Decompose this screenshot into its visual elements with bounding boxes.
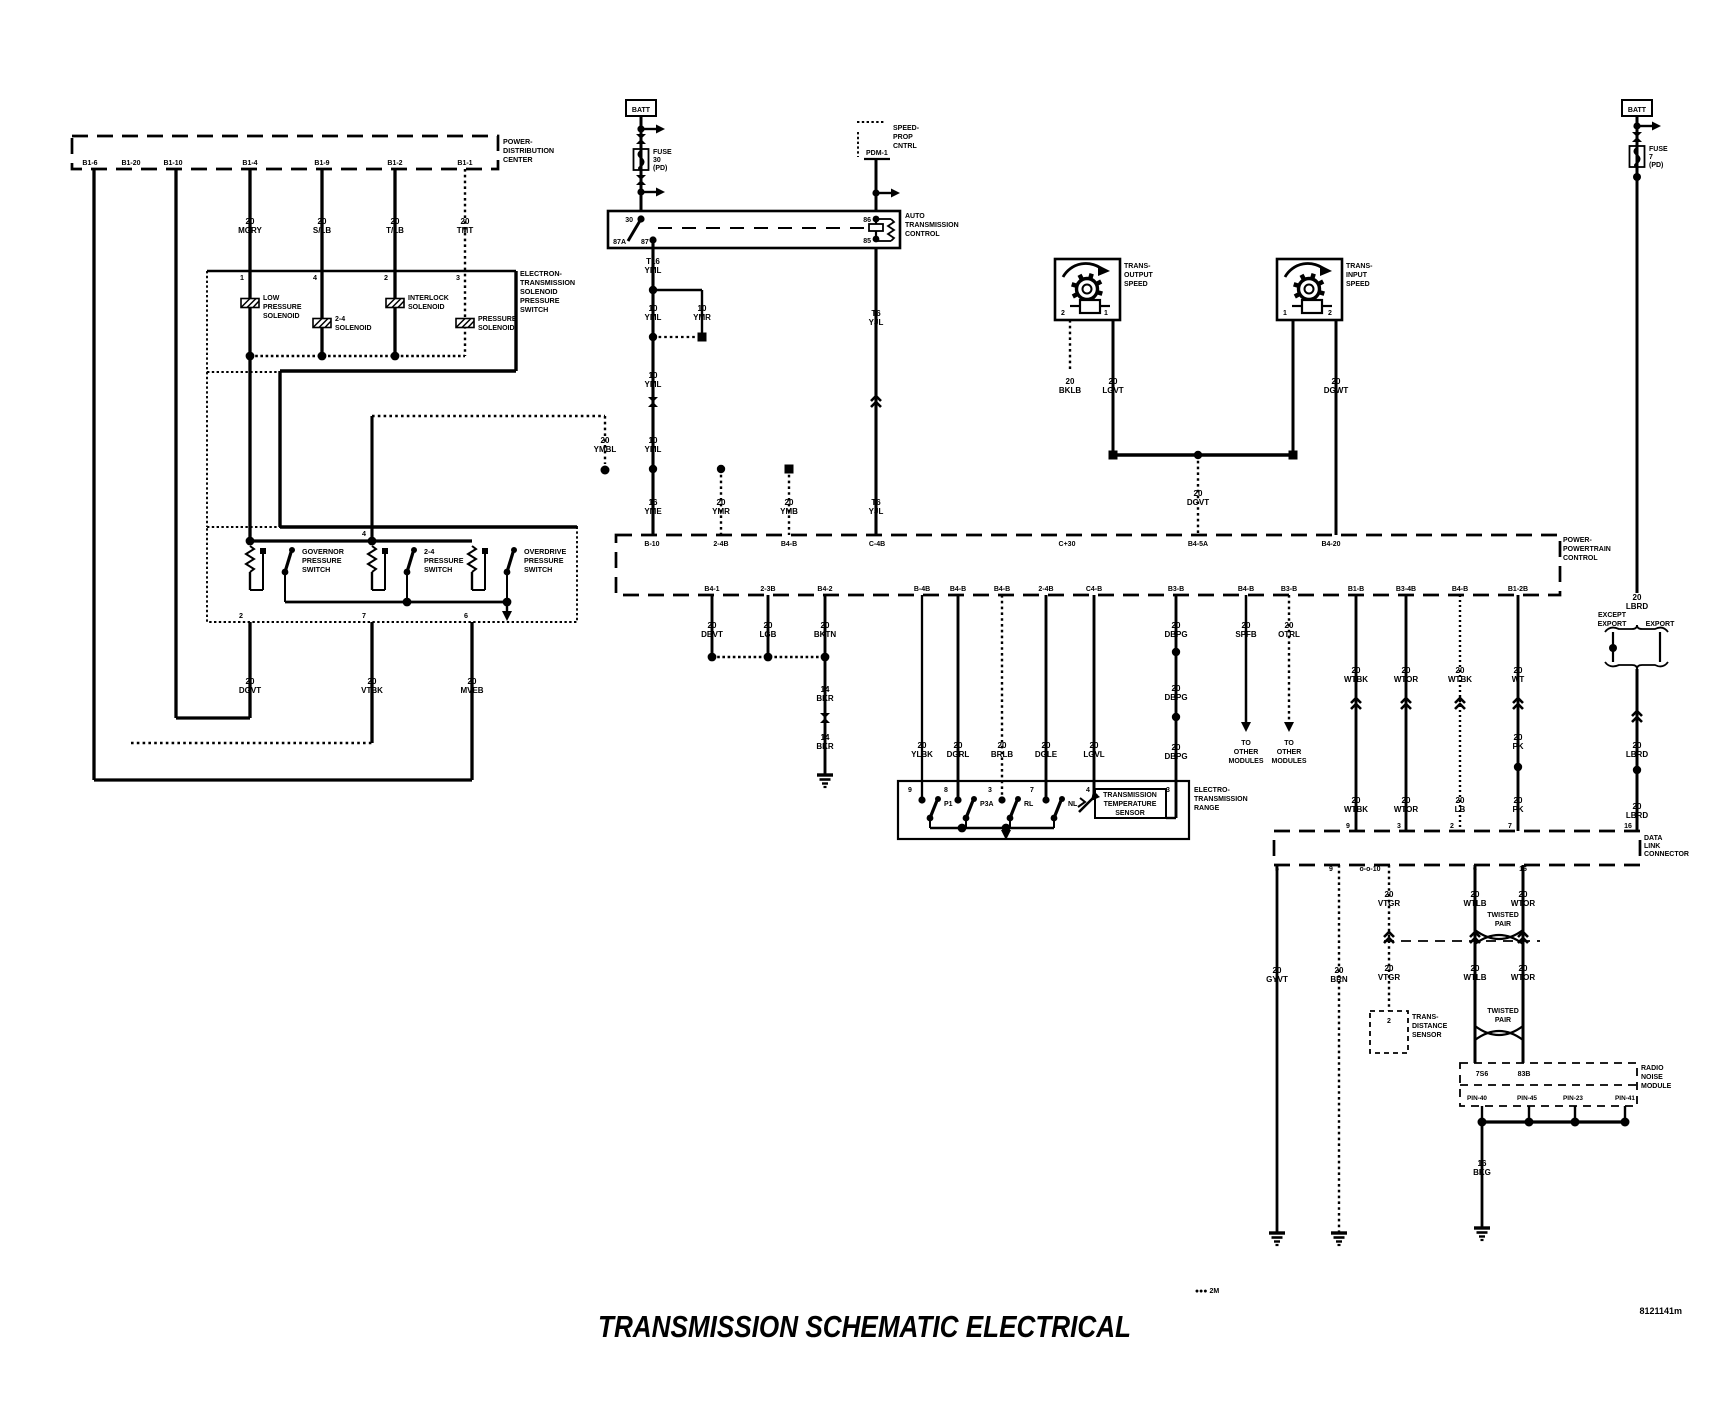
svg-text:T16: T16: [646, 257, 660, 266]
svg-text:RL: RL: [1024, 801, 1034, 808]
svg-text:TRANSMISSION SCHEMATIC ELECTRI: TRANSMISSION SCHEMATIC ELECTRICAL: [598, 1309, 1131, 1344]
svg-text:4: 4: [1086, 787, 1090, 794]
svg-text:16: 16: [1478, 1159, 1487, 1168]
svg-text:LINK: LINK: [1644, 843, 1660, 850]
ground group wires: [711, 595, 714, 657]
range sensor wires: [921, 595, 923, 800]
svg-text:T6: T6: [871, 309, 881, 318]
svg-text:20: 20: [1352, 666, 1361, 675]
low pressure solenoid: [241, 299, 259, 308]
svg-text:B1-B: B1-B: [1348, 586, 1364, 593]
svg-text:2: 2: [1328, 310, 1332, 317]
svg-text:OTHER: OTHER: [1277, 749, 1302, 756]
svg-text:83B: 83B: [1518, 1071, 1531, 1078]
svg-text:MODULE: MODULE: [1641, 1083, 1672, 1090]
wire PCM to DLC x=1356: [1355, 595, 1358, 831]
svg-text:PIN-40: PIN-40: [1467, 1095, 1487, 1102]
pressure solenoid: [456, 319, 474, 328]
crossing dashed line: [1384, 940, 1540, 942]
svg-text:EXCEPT: EXCEPT: [1598, 612, 1627, 619]
svg-text:PK: PK: [1512, 742, 1523, 751]
svg-text:RANGE: RANGE: [1194, 805, 1220, 812]
svg-text:B1-2: B1-2: [387, 160, 402, 167]
svg-text:20: 20: [468, 677, 477, 686]
svg-text:4: 4: [362, 529, 366, 538]
wire solenoid to switch box: [278, 371, 281, 527]
svg-text:DBPG: DBPG: [1164, 630, 1187, 639]
svg-text:POWER-: POWER-: [1563, 537, 1592, 544]
svg-text:B3-B: B3-B: [1168, 586, 1184, 593]
svg-text:●●● 2M: ●●● 2M: [1195, 1288, 1220, 1295]
svg-text:B1-2B: B1-2B: [1508, 586, 1528, 593]
svg-text:20: 20: [1273, 966, 1282, 975]
svg-text:MVEB: MVEB: [460, 686, 483, 695]
svg-text:YML: YML: [645, 380, 662, 389]
svg-text:LBRD: LBRD: [1626, 602, 1648, 611]
relay contacts: [637, 215, 644, 222]
svg-text:LGVT: LGVT: [1102, 386, 1123, 395]
svg-text:BRLB: BRLB: [991, 750, 1013, 759]
svg-text:B-10: B-10: [644, 541, 659, 548]
svg-text:PIN-23: PIN-23: [1563, 1095, 1583, 1102]
svg-text:2-4B: 2-4B: [713, 541, 728, 548]
svg-text:DBPG: DBPG: [1164, 693, 1187, 702]
wire W1: [92, 169, 95, 780]
switch bus: [250, 539, 472, 542]
svg-text:PRESSURE: PRESSURE: [520, 296, 560, 305]
svg-text:CNTRL: CNTRL: [893, 143, 917, 150]
svg-text:20: 20: [1090, 741, 1099, 750]
svg-text:YMR: YMR: [693, 313, 711, 322]
svg-text:B3-B: B3-B: [1281, 586, 1297, 593]
svg-text:ELECTRON-: ELECTRON-: [520, 269, 563, 278]
svg-text:SWITCH: SWITCH: [524, 565, 552, 574]
svg-text:B4-2: B4-2: [817, 586, 832, 593]
svg-text:20: 20: [1332, 377, 1341, 386]
wire pin3 right: [1175, 595, 1178, 818]
svg-text:B1-4: B1-4: [242, 160, 257, 167]
svg-text:B4-20: B4-20: [1321, 541, 1340, 548]
fuse F1: [634, 149, 649, 170]
wire W2: [174, 169, 177, 718]
wire relay coil to PCM: [874, 248, 877, 535]
svg-text:DGVT: DGVT: [1187, 498, 1209, 507]
svg-text:B4-B: B4-B: [1452, 586, 1468, 593]
svg-text:B1-10: B1-10: [163, 160, 182, 167]
svg-text:LB: LB: [1455, 805, 1466, 814]
svg-text:B4-5A: B4-5A: [1188, 541, 1208, 548]
svg-text:NOISE: NOISE: [1641, 1074, 1663, 1081]
svg-text:B1-20: B1-20: [121, 160, 140, 167]
svg-text:PK: PK: [1512, 805, 1523, 814]
svg-text:WTOR: WTOR: [1394, 805, 1419, 814]
wire PCM to DLC x=1460: [1459, 595, 1461, 831]
svg-text:S/LB: S/LB: [313, 226, 331, 235]
svg-text:TO: TO: [1284, 740, 1294, 747]
svg-text:6: 6: [464, 611, 468, 620]
DLC wire to sensor: [1388, 865, 1390, 1011]
svg-text:2-4: 2-4: [335, 316, 345, 323]
svg-text:3: 3: [1166, 787, 1170, 794]
svg-text:DISTANCE: DISTANCE: [1412, 1023, 1448, 1030]
off-page arrow 1: [1245, 595, 1248, 722]
svg-text:1: 1: [240, 273, 244, 282]
svg-text:o-o-10: o-o-10: [1360, 866, 1381, 873]
svg-text:B4-B: B4-B: [1238, 586, 1254, 593]
svg-text:20: 20: [1471, 890, 1480, 899]
svg-text:16: 16: [1624, 823, 1632, 830]
svg-text:PRESSURE: PRESSURE: [524, 556, 564, 565]
svg-text:3: 3: [1397, 823, 1401, 830]
svg-text:FUSE: FUSE: [653, 149, 672, 156]
ground G1: [817, 773, 833, 776]
svg-text:20: 20: [1285, 621, 1294, 630]
DLC ground wire 2: [1338, 865, 1340, 1233]
svg-text:SOLENOID: SOLENOID: [263, 313, 300, 320]
svg-text:LOW: LOW: [263, 295, 280, 302]
svg-text:3: 3: [456, 273, 460, 282]
svg-text:CONTROL: CONTROL: [1563, 555, 1598, 562]
wire pin7 down: [370, 622, 373, 743]
svg-text:20: 20: [764, 621, 773, 630]
relay coil: [873, 216, 880, 223]
svg-text:9: 9: [1346, 823, 1350, 830]
svg-text:B3-4B: B3-4B: [1396, 586, 1416, 593]
svg-text:TRANSMISSION: TRANSMISSION: [1194, 796, 1248, 803]
svg-text:PAIR: PAIR: [1495, 1017, 1511, 1024]
svg-text:PDM-1: PDM-1: [866, 150, 888, 157]
svg-text:SENSOR: SENSOR: [1115, 810, 1145, 817]
svg-text:SENSOR: SENSOR: [1412, 1032, 1442, 1039]
svg-text:20: 20: [368, 677, 377, 686]
svg-text:YML: YML: [645, 313, 662, 322]
range bus: [930, 827, 1054, 830]
svg-text:20: 20: [954, 741, 963, 750]
svg-text:YML: YML: [645, 445, 662, 454]
svg-text:TRANSMISSION: TRANSMISSION: [905, 222, 959, 229]
branch loop: [653, 289, 702, 291]
sensor bus: [1113, 453, 1293, 456]
wire PDM to relay: [875, 159, 878, 211]
svg-text:BKR: BKR: [816, 742, 834, 751]
battery feed right: [1622, 100, 1652, 116]
svg-text:T/LB: T/LB: [386, 226, 404, 235]
svg-text:PAIR: PAIR: [1495, 921, 1511, 928]
svg-text:30: 30: [625, 217, 633, 224]
svg-text:C+30: C+30: [1059, 541, 1076, 548]
svg-text:4: 4: [313, 273, 317, 282]
svg-text:BRN: BRN: [1330, 975, 1348, 984]
svg-text:YMB: YMB: [780, 507, 798, 516]
svg-text:20: 20: [246, 217, 255, 226]
svg-text:SPFB: SPFB: [1235, 630, 1257, 639]
svg-text:YMBL: YMBL: [594, 445, 617, 454]
svg-text:20: 20: [1519, 890, 1528, 899]
module ground bus: [1481, 1106, 1483, 1122]
distance sensor box: [1370, 1011, 1408, 1053]
svg-text:7: 7: [1030, 787, 1034, 794]
wire W4: [320, 169, 323, 268]
svg-text:YLBK: YLBK: [911, 750, 933, 759]
svg-text:B4-B: B4-B: [781, 541, 797, 548]
svg-text:AUTO: AUTO: [905, 213, 925, 220]
svg-text:20: 20: [1633, 741, 1642, 750]
speed control module partial: [857, 121, 885, 123]
svg-text:TRANSMISSION: TRANSMISSION: [1103, 792, 1157, 799]
svg-text:20: 20: [1385, 964, 1394, 973]
svg-text:TEMPERATURE: TEMPERATURE: [1104, 801, 1157, 808]
wire W5: [393, 169, 396, 268]
pressure switch box: [206, 372, 208, 527]
2-4 solenoid: [313, 319, 331, 328]
svg-text:8121141m: 8121141m: [1639, 1306, 1682, 1316]
svg-text:20: 20: [1172, 743, 1181, 752]
off-page arrow 2: [1288, 595, 1290, 722]
svg-text:VTGR: VTGR: [1378, 899, 1400, 908]
svg-text:20: 20: [1402, 666, 1411, 675]
svg-text:SWITCH: SWITCH: [424, 565, 452, 574]
svg-text:DATA: DATA: [1644, 835, 1662, 842]
dotted wire to splice: [372, 415, 605, 417]
svg-text:14: 14: [821, 685, 830, 694]
svg-text:PIN-41: PIN-41: [1615, 1095, 1635, 1102]
svg-text:MODULES: MODULES: [1229, 758, 1264, 765]
wire pin2 down: [248, 622, 251, 718]
svg-text:16: 16: [649, 498, 658, 507]
svg-text:YME: YME: [644, 507, 662, 516]
svg-text:BKG: BKG: [1473, 1168, 1491, 1177]
svg-text:ELECTRO-: ELECTRO-: [1194, 787, 1230, 794]
svg-text:20: 20: [461, 217, 470, 226]
data link connector: [1274, 831, 1640, 865]
input speed sensor: [1277, 259, 1342, 320]
svg-text:CONTROL: CONTROL: [905, 231, 940, 238]
inline connector: [636, 134, 646, 144]
svg-text:SWITCH: SWITCH: [302, 565, 330, 574]
svg-text:MODULES: MODULES: [1272, 758, 1307, 765]
svg-text:RADIO: RADIO: [1641, 1065, 1664, 1072]
svg-text:B-4B: B-4B: [914, 586, 930, 593]
svg-text:B1-1: B1-1: [457, 160, 472, 167]
svg-text:B4-1: B4-1: [704, 586, 719, 593]
svg-text:SPEED-: SPEED-: [893, 125, 920, 132]
svg-text:TRANS-: TRANS-: [1124, 263, 1151, 270]
svg-text:C4-B: C4-B: [1086, 586, 1102, 593]
svg-text:20: 20: [821, 621, 830, 630]
svg-text:85: 85: [863, 238, 871, 245]
svg-text:7: 7: [1508, 823, 1512, 830]
svg-text:INTERLOCK: INTERLOCK: [408, 295, 449, 302]
svg-text:NL: NL: [1068, 801, 1078, 808]
svg-text:20: 20: [717, 498, 726, 507]
svg-text:20: 20: [1633, 593, 1642, 602]
svg-text:20: 20: [1385, 890, 1394, 899]
svg-text:TRANS-: TRANS-: [1346, 263, 1373, 270]
svg-text:86: 86: [863, 217, 871, 224]
svg-text:OVERDRIVE: OVERDRIVE: [524, 547, 567, 556]
svg-text:TO: TO: [1241, 740, 1251, 747]
svg-text:PRESSURE: PRESSURE: [302, 556, 342, 565]
stub wire K1: [717, 465, 725, 473]
svg-text:LGVL: LGVL: [1083, 750, 1104, 759]
svg-text:DBVT: DBVT: [701, 630, 723, 639]
svg-text:CONNECTOR: CONNECTOR: [1644, 851, 1689, 858]
svg-text:2-4B: 2-4B: [1038, 586, 1053, 593]
svg-text:WTOR: WTOR: [1511, 899, 1536, 908]
svg-text:1: 1: [1104, 310, 1108, 317]
svg-text:87: 87: [641, 239, 649, 246]
svg-text:T6: T6: [871, 498, 881, 507]
svg-text:2: 2: [1387, 1018, 1391, 1025]
svg-text:WTBK: WTBK: [1344, 675, 1368, 684]
output speed sensor: [1055, 259, 1120, 320]
svg-text:WTOR: WTOR: [1511, 973, 1536, 982]
connector C1 powertrain control module: [72, 136, 498, 169]
svg-text:PRESSURE: PRESSURE: [478, 316, 517, 323]
svg-text:10: 10: [698, 304, 707, 313]
twisted pair wires: [1474, 865, 1477, 1063]
svg-text:B1-6: B1-6: [82, 160, 97, 167]
svg-text:WTOR: WTOR: [1394, 675, 1419, 684]
svg-text:20: 20: [1514, 733, 1523, 742]
splice arrow: [637, 125, 644, 132]
svg-text:SOLENOID: SOLENOID: [335, 325, 372, 332]
lower bus: [285, 601, 507, 604]
svg-text:7S6: 7S6: [1476, 1071, 1489, 1078]
svg-text:DISTRIBUTION: DISTRIBUTION: [503, 146, 554, 155]
svg-text:20: 20: [998, 741, 1007, 750]
svg-text:20: 20: [785, 498, 794, 507]
svg-text:20: 20: [708, 621, 717, 630]
svg-text:LBRD: LBRD: [1626, 750, 1648, 759]
svg-text:20: 20: [1471, 964, 1480, 973]
range sensor box: [898, 781, 1189, 839]
svg-text:20: 20: [1194, 489, 1203, 498]
svg-text:YML: YML: [645, 266, 662, 275]
svg-text:7: 7: [1649, 154, 1653, 161]
wire W3: [248, 169, 251, 268]
svg-text:SOLENOID: SOLENOID: [478, 325, 515, 332]
svg-text:CENTER: CENTER: [503, 155, 533, 164]
svg-text:14: 14: [821, 733, 830, 742]
svg-text:BKTN: BKTN: [814, 630, 836, 639]
svg-text:SOLENOID: SOLENOID: [520, 287, 558, 296]
svg-text:C-4B: C-4B: [869, 541, 885, 548]
svg-text:20: 20: [1402, 796, 1411, 805]
svg-text:OTRL: OTRL: [1278, 630, 1300, 639]
wire PCM to DLC x=1406: [1405, 595, 1408, 831]
stub wire K2: [785, 465, 794, 474]
svg-text:20: 20: [1456, 796, 1465, 805]
battery feed B+: [626, 100, 656, 116]
svg-text:POWERTRAIN: POWERTRAIN: [1563, 546, 1611, 553]
svg-text:WTBK: WTBK: [1448, 675, 1472, 684]
range switch blades: [918, 796, 925, 803]
svg-text:PIN-45: PIN-45: [1517, 1095, 1537, 1102]
svg-text:TRANS-: TRANS-: [1412, 1014, 1439, 1021]
svg-text:GYVT: GYVT: [1266, 975, 1288, 984]
svg-text:B1-9: B1-9: [314, 160, 329, 167]
svg-text:20: 20: [1633, 802, 1642, 811]
svg-text:YJL: YJL: [869, 507, 884, 516]
svg-text:DGLE: DGLE: [1035, 750, 1058, 759]
fuse F2: [1630, 146, 1645, 167]
svg-text:20: 20: [1109, 377, 1118, 386]
svg-text:8: 8: [944, 787, 948, 794]
overdrive solenoid: [386, 299, 404, 308]
svg-text:20: 20: [1519, 964, 1528, 973]
wire W6: [464, 169, 466, 268]
svg-text:DBPG: DBPG: [1164, 752, 1187, 761]
svg-text:20: 20: [1514, 796, 1523, 805]
svg-text:OUTPUT: OUTPUT: [1124, 272, 1154, 279]
solenoid common bus: [250, 355, 465, 358]
svg-text:YJL: YJL: [869, 318, 884, 327]
svg-text:VTGR: VTGR: [1378, 973, 1400, 982]
svg-text:2-3B: 2-3B: [760, 586, 775, 593]
temp sensor symbol: [1093, 781, 1096, 797]
svg-text:BATT: BATT: [1628, 107, 1647, 114]
svg-text:DGRL: DGRL: [947, 750, 970, 759]
svg-text:87A: 87A: [613, 239, 626, 246]
svg-text:2: 2: [1061, 310, 1065, 317]
svg-text:DGVT: DGVT: [239, 686, 261, 695]
svg-text:10: 10: [649, 371, 658, 380]
svg-text:SPEED: SPEED: [1346, 281, 1370, 288]
solenoid wires inside: [248, 268, 251, 541]
svg-text:WT: WT: [1512, 675, 1525, 684]
svg-text:BATT: BATT: [632, 107, 651, 114]
svg-text:YMR: YMR: [712, 507, 730, 516]
wire PCM to DLC x=1518: [1517, 595, 1520, 831]
svg-text:SPEED: SPEED: [1124, 281, 1148, 288]
svg-text:30: 30: [653, 157, 661, 164]
svg-text:20: 20: [391, 217, 400, 226]
svg-text:TWISTED: TWISTED: [1487, 912, 1519, 919]
svg-text:OTHER: OTHER: [1234, 749, 1259, 756]
svg-text:20: 20: [1172, 684, 1181, 693]
svg-text:WTLB: WTLB: [1463, 973, 1486, 982]
svg-text:INPUT: INPUT: [1346, 272, 1368, 279]
svg-text:VTBK: VTBK: [361, 686, 383, 695]
svg-text:SWITCH: SWITCH: [520, 305, 548, 314]
svg-text:B4-B: B4-B: [950, 586, 966, 593]
svg-text:WTLB: WTLB: [1463, 899, 1486, 908]
svg-text:9: 9: [1329, 866, 1333, 873]
svg-text:MGRY: MGRY: [238, 226, 262, 235]
svg-text:20: 20: [918, 741, 927, 750]
2-4 pressure switch: [368, 546, 376, 572]
svg-text:20: 20: [1352, 796, 1361, 805]
svg-text:POWER-: POWER-: [503, 137, 533, 146]
svg-text:GOVERNOR: GOVERNOR: [302, 547, 345, 556]
PCM powertrain control module: [616, 535, 1560, 595]
wire pin6 down: [470, 622, 473, 780]
svg-text:9: 9: [908, 787, 912, 794]
DLC ground wire 1: [1276, 865, 1279, 1233]
svg-text:P3A: P3A: [980, 801, 994, 808]
svg-text:20: 20: [601, 436, 610, 445]
svg-text:2-4: 2-4: [424, 547, 434, 556]
svg-text:2: 2: [239, 611, 243, 620]
svg-text:20: 20: [318, 217, 327, 226]
svg-text:LGB: LGB: [760, 630, 777, 639]
svg-text:(PD): (PD): [653, 165, 667, 172]
svg-text:2: 2: [1450, 823, 1454, 830]
svg-text:3: 3: [988, 787, 992, 794]
svg-text:20: 20: [1456, 666, 1465, 675]
svg-text:WTBK: WTBK: [1344, 805, 1368, 814]
